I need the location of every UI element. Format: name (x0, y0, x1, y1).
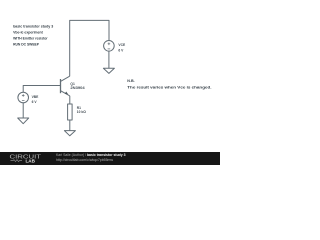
wire collector net: Q1 collector up, top rail, down to VCE (70, 20, 109, 76)
logo resistor squiggle (11, 160, 23, 162)
transistor Q1 emitter arrowhead (65, 92, 68, 95)
VCE plus sign (108, 43, 111, 46)
svg-text:Vbe-Ic experiment: Vbe-Ic experiment (13, 31, 43, 35)
svg-text:6 V: 6 V (118, 49, 124, 53)
svg-text:VCE: VCE (118, 43, 126, 47)
svg-text:LAB: LAB (26, 159, 36, 164)
banner url line (56, 159, 113, 163)
transistor Q1 collector diagonal (61, 76, 70, 81)
wire VBE bottom to ground (22, 103, 24, 118)
svg-text:N.B.: N.B. (127, 79, 134, 83)
VBE plus sign (22, 43, 110, 101)
wire R1 bottom to ground (69, 120, 71, 131)
wire base net: Q1 base to VBE top (23, 86, 60, 93)
voltage source VBE (18, 92, 29, 103)
svg-text:2N3904: 2N3904 (70, 86, 84, 90)
resistor R1 body (68, 104, 73, 120)
ground (R1) (64, 131, 75, 136)
svg-text:6 V: 6 V (32, 100, 38, 104)
ground (VCE) (103, 68, 114, 73)
svg-text:The result varies when Vce is: The result varies when Vce is changed. (127, 86, 211, 90)
svg-text:VBE: VBE (32, 95, 40, 99)
VBE minus sign (22, 100, 25, 102)
VCE minus sign (108, 48, 111, 50)
svg-text:10 kΩ: 10 kΩ (77, 110, 86, 114)
transistor Q1 base bar (60, 79, 62, 93)
voltage source VCE (104, 41, 115, 52)
wire emitter to R1 (69, 96, 71, 104)
CircuitLab banner (0, 152, 220, 165)
svg-text:RUN DC SWEEP: RUN DC SWEEP (13, 42, 39, 46)
banner author/title line (56, 154, 126, 157)
svg-text:basic transistor study 3: basic transistor study 3 (13, 25, 53, 29)
wire VCE bottom to ground (108, 51, 110, 68)
svg-text:WITH Emitter resistor: WITH Emitter resistor (13, 36, 48, 40)
transistor Q1 emitter diagonal (61, 91, 70, 96)
ground (VBE) (18, 118, 29, 124)
